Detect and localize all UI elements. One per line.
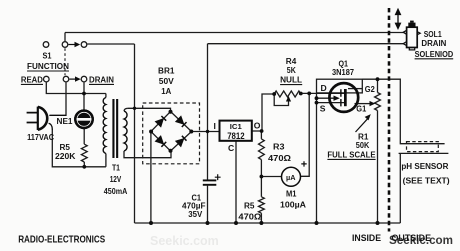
- svg-text:NULL: NULL: [280, 75, 302, 85]
- wire secondary bottom lead to bridge: [124, 151, 171, 158]
- wire source lead: [317, 102, 345, 104]
- wire G2 stub: [348, 88, 362, 90]
- svg-text:RADIO-ELECTRONICS: RADIO-ELECTRONICS: [18, 235, 105, 246]
- svg-text:R3: R3: [273, 142, 285, 152]
- wire vertical x=207.5 down to C1: [207, 44, 209, 180]
- capacitor C1: [203, 180, 217, 184]
- wire switch DRAIN contact to vertical: [87, 43, 134, 45]
- wire G1 to R1 wiper: [355, 103, 371, 105]
- svg-text:220K: 220K: [55, 151, 76, 161]
- wire primary bottom lead: [105, 154, 107, 167]
- svg-text:50V: 50V: [159, 76, 174, 86]
- bridge diamond: [151, 112, 192, 152]
- svg-text:Seekic.com: Seekic.com: [150, 234, 219, 248]
- INSIDE/OUTSIDE dashed separator: [388, 8, 391, 232]
- svg-text:NE1: NE1: [57, 116, 73, 126]
- resistor R5 220K: [81, 144, 87, 162]
- svg-text:M1: M1: [286, 189, 297, 199]
- wire solenoid return rail: [208, 43, 405, 45]
- wire DRAIN lower contact stub: [83, 82, 85, 93]
- switch mechanical linkage dashed: [64, 48, 66, 75]
- svg-text:12V: 12V: [110, 174, 122, 184]
- svg-text:C: C: [228, 143, 234, 153]
- diode D4 (bottom-right): [176, 139, 184, 147]
- wire IC1 common to ground: [235, 141, 237, 223]
- wire primary top lead: [105, 94, 107, 98]
- C1 plus sign: [215, 174, 221, 180]
- svg-text:450mA: 450mA: [104, 186, 128, 196]
- svg-text:1A: 1A: [161, 86, 171, 96]
- wire NE1 top: [83, 94, 85, 111]
- wire R3 top stub: [260, 131, 262, 139]
- transistor Q1 case rectangle: [317, 79, 363, 93]
- M1 plus sign: [301, 161, 306, 166]
- svg-text:S1: S1: [43, 51, 52, 61]
- potentiometer R4 element: [274, 91, 301, 97]
- resistor R3: [259, 139, 265, 160]
- solenoid SOL1 motion arrow: [396, 9, 401, 28]
- wire secondary top lead: [124, 108, 128, 111]
- diode D2 (top-right): [176, 116, 184, 124]
- diode D1 (left-top): [156, 116, 187, 147]
- wire R3-M1 junction to meter: [261, 176, 281, 178]
- junction dots Q1 source/substrate: [315, 96, 319, 100]
- svg-text:DRAIN: DRAIN: [421, 38, 446, 48]
- svg-text:T1: T1: [112, 163, 120, 173]
- svg-text:S: S: [320, 103, 326, 113]
- wire R4 wiper tie: [274, 94, 288, 106]
- svg-text:FULL SCALE: FULL SCALE: [327, 149, 375, 159]
- wire Q1 source ground drop: [316, 93, 318, 223]
- Q1 channel bar: [344, 89, 347, 106]
- switch arrow pole 1: [69, 42, 81, 82]
- wire READ contact to primary top: [46, 82, 106, 93]
- switch S1 pole 1 contacts: [43, 42, 87, 82]
- wire R1 top stub: [377, 79, 379, 92]
- wire IC1 output: [252, 130, 262, 132]
- wire R5 bottom to AC return: [83, 162, 85, 167]
- wire C1 bottom to ground bus: [207, 186, 209, 223]
- svg-text:(SEE TEXT): (SEE TEXT): [403, 175, 450, 185]
- svg-text:DRAIN: DRAIN: [89, 74, 114, 84]
- ground bus: [135, 222, 401, 224]
- wire vertical x=134.5 to ground bus: [134, 44, 136, 223]
- transformer T1 primary: [103, 98, 106, 154]
- Q1 substrate arrow: [334, 96, 340, 101]
- transformer T1 core: [112, 99, 114, 158]
- svg-text:117VAC: 117VAC: [27, 132, 54, 142]
- svg-text:5K: 5K: [287, 65, 297, 75]
- wire pH sensor bottom electrode to ground: [399, 153, 449, 223]
- wire R5 bottom stub: [260, 213, 262, 223]
- regulator IC1 box: [220, 121, 252, 141]
- svg-text:100µA: 100µA: [280, 199, 306, 209]
- R1 callout arrow: [356, 118, 369, 132]
- svg-text:R5: R5: [244, 201, 255, 211]
- wire bridge DC- drop to ground: [150, 132, 152, 224]
- svg-text:3N187: 3N187: [332, 67, 354, 77]
- solenoid SOL1 body: [403, 21, 420, 50]
- svg-text:D: D: [321, 83, 327, 93]
- wire AC secondary top to bridge: [128, 108, 171, 111]
- wire +12V riser to R4: [262, 94, 274, 131]
- R4 wiper arrow: [286, 96, 291, 102]
- pH sensor dashed box: [407, 142, 439, 152]
- svg-text:µA: µA: [286, 173, 296, 182]
- transformer T1 secondary: [124, 111, 127, 151]
- wire NE1 bottom to R5: [83, 128, 85, 144]
- wire Q1 case to pH sensor top: [362, 79, 444, 144]
- svg-text:I: I: [214, 121, 216, 131]
- wire substrate arrow lead: [317, 97, 335, 99]
- svg-text:7812: 7812: [227, 131, 245, 141]
- switch arrow pole 2: [70, 79, 77, 80]
- svg-text:SOLENIOD: SOLENIOD: [415, 49, 454, 59]
- svg-text:G2: G2: [365, 84, 375, 94]
- svg-text:pH SENSOR: pH SENSOR: [401, 161, 449, 171]
- svg-text:INSIDE: INSIDE: [352, 232, 381, 243]
- switch S1 pole 2 contacts: [44, 76, 50, 82]
- wire top rail to solenoid: [65, 32, 405, 34]
- svg-text:FUNCTION: FUNCTION: [27, 61, 69, 71]
- svg-text:Seekic.com: Seekic.com: [389, 233, 453, 247]
- svg-text:35V: 35V: [188, 209, 202, 219]
- svg-text:50K: 50K: [356, 140, 370, 150]
- svg-text:O: O: [254, 121, 261, 131]
- bridge vertex junctions: [149, 110, 193, 153]
- wire R4 to Q1 drain: [301, 92, 345, 94]
- wire AC bottom return: [52, 129, 106, 167]
- neon lamp NE1: [75, 111, 92, 128]
- plug 117VAC: [27, 107, 66, 130]
- svg-text:IC1: IC1: [230, 122, 242, 131]
- wire R1 bottom to ground: [377, 111, 379, 224]
- svg-text:G1: G1: [356, 104, 366, 114]
- R1 wiper arrowhead: [370, 101, 376, 106]
- svg-text:BR1: BR1: [158, 66, 175, 76]
- transistor Q1 body: [329, 83, 358, 112]
- svg-text:470Ω: 470Ω: [268, 153, 291, 163]
- diode D3 (left-bottom): [156, 136, 164, 144]
- wire stub from switch movable to top rail: [64, 33, 66, 42]
- resistor R5 470: [259, 197, 265, 213]
- meter M1: [282, 167, 301, 186]
- wire switch movable to plug: [50, 82, 66, 115]
- bridge BR1 dashed box: [143, 103, 200, 164]
- potentiometer R1 element: [375, 93, 381, 111]
- wire M1 plus lead riser: [301, 93, 310, 176]
- svg-text:470Ω: 470Ω: [238, 212, 261, 222]
- svg-text:READ: READ: [21, 74, 43, 84]
- wire bridge DC+ to IC1 input: [192, 131, 220, 133]
- Q1 gate bars: [340, 89, 342, 106]
- wire R3 bottom / R5 top: [260, 160, 262, 197]
